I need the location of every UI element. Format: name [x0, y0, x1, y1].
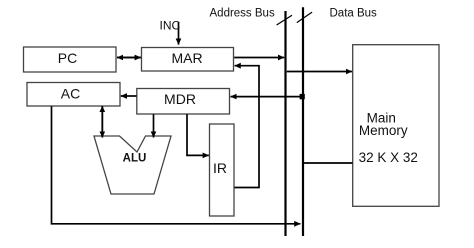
svg-text:MAR: MAR [171, 50, 202, 66]
svg-text:INC: INC [160, 18, 181, 32]
svg-text:Address Bus: Address Bus [210, 8, 275, 20]
svg-text:ALU: ALU [123, 153, 147, 165]
svg-text:AC: AC [61, 86, 80, 102]
svg-text:Data Bus: Data Bus [330, 8, 378, 20]
svg-text:PC: PC [58, 50, 77, 66]
svg-text:32 K X 32: 32 K X 32 [359, 150, 418, 165]
svg-text:Memory: Memory [359, 123, 408, 138]
svg-text:IR: IR [213, 160, 227, 176]
svg-text:MDR: MDR [164, 91, 196, 107]
